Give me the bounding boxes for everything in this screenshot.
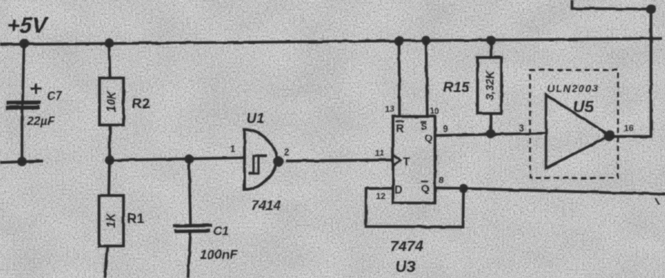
wire C7 bottom plate down: [21, 109, 24, 162]
U1 output bubble: [273, 156, 284, 167]
node rail/C7: [19, 39, 29, 49]
R2 body: [100, 78, 124, 125]
svg-text:1: 1: [230, 144, 236, 155]
node rail/R15: [486, 35, 496, 45]
wire rail to C7 top plate: [23, 44, 25, 110]
C7 top plate: [7, 101, 42, 105]
wire U3 Qbar (pin8) to node: [435, 187, 464, 190]
wire node down to C1: [189, 159, 191, 225]
wire rail to R2: [109, 43, 110, 78]
R15 body: [478, 58, 502, 114]
node C7 bottom: [17, 157, 27, 167]
node R15/Q wire: [486, 129, 495, 138]
wire +5V rail: [0, 39, 662, 45]
svg-text:U3: U3: [395, 259, 416, 276]
R1 body: [99, 196, 124, 247]
wire Qbar to right edge: [464, 189, 665, 195]
svg-text:2: 2: [284, 147, 289, 158]
wire left edge stub: [0, 161, 43, 163]
node top right: [646, 4, 656, 14]
wire R2 to node: [108, 125, 111, 160]
svg-text:S: S: [421, 122, 427, 132]
svg-text:3: 3: [519, 123, 524, 133]
wire U5 output up and across top: [572, 0, 651, 137]
svg-text:D: D: [395, 184, 403, 196]
node rail/R2: [104, 38, 114, 48]
svg-text:100nF: 100nF: [200, 247, 239, 262]
wire rail to pin 10: [426, 41, 427, 117]
wire node to U1 input: [110, 158, 245, 161]
svg-text:U1: U1: [246, 111, 265, 127]
node Qbar feedback: [459, 184, 468, 193]
svg-text:10K: 10K: [107, 90, 119, 112]
resistor R2: [100, 43, 151, 160]
U1 gate body: [245, 130, 277, 190]
stray pen tick right edge: [656, 198, 660, 204]
svg-text:1K: 1K: [106, 212, 118, 227]
node C1 tap: [184, 154, 193, 163]
flip-flop U3 7474: [375, 41, 448, 276]
svg-text:11: 11: [375, 148, 384, 158]
node rail/U3 pin13: [394, 36, 404, 46]
wire R1 bottom to edge: [105, 246, 108, 278]
C1 bottom plate: [174, 229, 210, 233]
op-amp U1 schmitt inverter 7414: [230, 111, 289, 213]
svg-text:+5V: +5V: [7, 13, 49, 38]
svg-text:Q: Q: [425, 133, 433, 145]
capacitor C1: [173, 159, 239, 278]
svg-text:T: T: [403, 156, 410, 168]
node rail/U3 pin10: [421, 36, 431, 46]
svg-text:13: 13: [385, 104, 395, 114]
wire U3 Q (pin9) to U5 input: [435, 133, 546, 135]
resistor R15: [443, 40, 502, 138]
U5 dashed box: [530, 70, 618, 178]
svg-text:22µF: 22µF: [26, 114, 55, 128]
wire node to R1: [107, 160, 110, 195]
wire feedback loop Qbar to D: [366, 188, 464, 227]
svg-text:R15: R15: [443, 80, 471, 96]
wire rail to R15: [490, 40, 493, 58]
svg-text:7414: 7414: [251, 198, 282, 213]
svg-text:7474: 7474: [390, 238, 424, 255]
U5 triangle: [546, 95, 610, 168]
node R2/R1/wire junction: [105, 156, 115, 166]
U1 hysteresis symbol: [249, 156, 267, 174]
svg-text:10: 10: [430, 106, 440, 116]
svg-text:16: 16: [624, 123, 634, 133]
svg-text:C7: C7: [47, 91, 62, 103]
wire C1 bottom to edge: [188, 232, 191, 278]
svg-text:R: R: [396, 123, 404, 135]
C7 bottom plate: [6, 106, 40, 110]
svg-text:9: 9: [443, 124, 448, 134]
svg-text:Q: Q: [421, 183, 429, 195]
wire R15 to Q wire: [489, 114, 492, 134]
U3 clock triangle: [393, 155, 401, 166]
svg-text:C1: C1: [214, 224, 230, 238]
C1 top plate: [173, 224, 212, 228]
svg-text:8: 8: [439, 175, 444, 185]
wire U1 output to U3 clock: [286, 160, 393, 161]
svg-text:R1: R1: [127, 211, 145, 226]
buffer U5 ULN2003: [519, 70, 634, 178]
wire rail to pin 13: [398, 41, 401, 117]
U3 body: [393, 117, 435, 204]
U5 output node dot: [604, 131, 614, 141]
C7 polarity plus: [31, 84, 41, 94]
svg-text:3,32K: 3,32K: [485, 70, 497, 100]
resistor R1: [99, 160, 145, 278]
svg-text:ULN2003: ULN2003: [547, 83, 599, 95]
svg-text:12: 12: [376, 191, 386, 201]
capacitor C7: [0, 44, 62, 167]
svg-text:R2: R2: [132, 95, 150, 111]
